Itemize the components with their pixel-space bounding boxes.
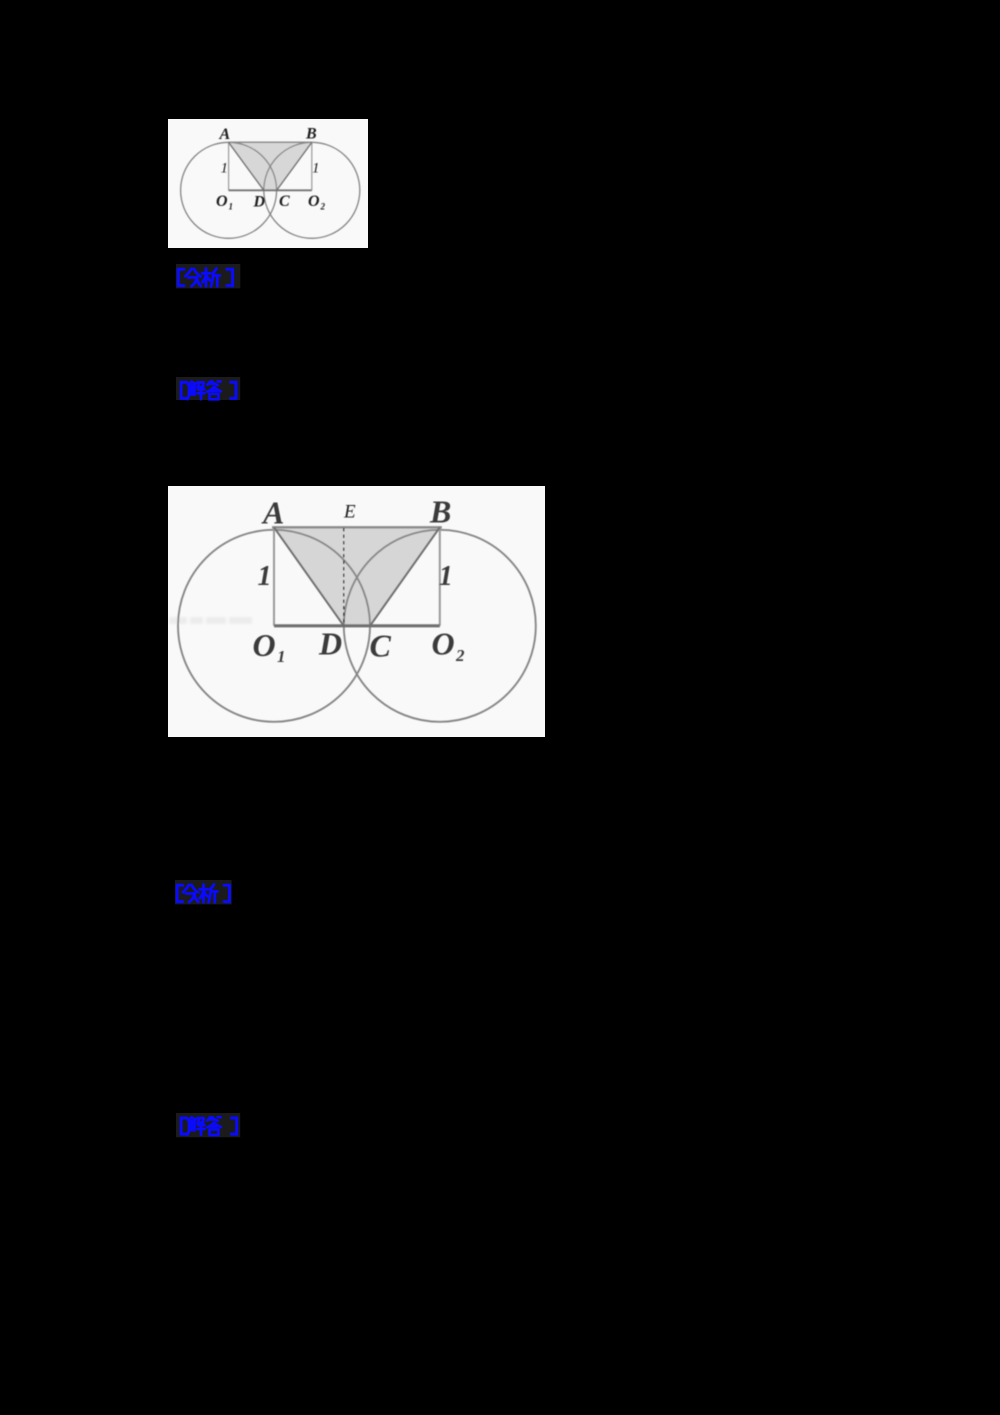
shaded trapezoid ABCD [229, 142, 312, 190]
labels [253, 494, 466, 667]
chord BC [370, 527, 440, 626]
bracket close [231, 1118, 236, 1134]
wire bottom line O1O2 [229, 189, 312, 191]
svg-text:2: 2 [455, 646, 465, 665]
fen [183, 884, 198, 901]
xi [200, 884, 218, 902]
bracket close [224, 885, 229, 901]
jie [188, 382, 196, 400]
circle O1 [178, 530, 370, 722]
rectangle sides [229, 142, 312, 190]
marker 3: blue tag fenxi [175, 880, 235, 905]
marker 1: blue tag fenxi [176, 264, 242, 289]
wire bottom line O1O2 [274, 624, 440, 627]
chord AD [229, 142, 264, 190]
bracket close [226, 269, 232, 285]
marker 4: blue tag jieda [176, 1113, 242, 1138]
svg-text:C: C [279, 193, 290, 210]
chord BC [277, 142, 312, 190]
svg-text:1: 1 [221, 161, 229, 177]
da [207, 1117, 221, 1135]
figure 2: enlarged diagram with point E and dashed ED [168, 486, 545, 737]
svg-text:D: D [318, 626, 342, 662]
svg-text:A: A [219, 126, 231, 143]
svg-text:1: 1 [312, 161, 320, 177]
svg-text:1: 1 [277, 647, 286, 666]
circle O1 [181, 142, 277, 238]
bracket [181, 383, 187, 399]
bracket close [231, 383, 236, 399]
svg-text:O: O [308, 193, 320, 210]
labels [216, 126, 326, 212]
jie [188, 1117, 196, 1135]
svg-text:B: B [429, 494, 451, 530]
circle O2 [264, 142, 360, 238]
bracket [178, 269, 184, 285]
wire top line AB [272, 526, 442, 528]
shaded trapezoid ABCD [274, 527, 440, 626]
svg-text:A: A [261, 495, 284, 531]
dashed line ED [343, 528, 345, 626]
faint watermark [169, 617, 252, 624]
chord AD [274, 527, 344, 626]
svg-text:2: 2 [320, 202, 326, 212]
svg-text:D: D [253, 194, 266, 211]
svg-text:C: C [370, 628, 392, 664]
svg-text:1: 1 [229, 202, 234, 212]
svg-text:E: E [343, 502, 356, 523]
circle O2 [344, 530, 536, 722]
bracket [177, 885, 183, 901]
figure 1: two unit circles with rectangle ABO2O1 [168, 119, 368, 248]
svg-text:O: O [216, 193, 228, 210]
marker 2: blue tag jieda [176, 377, 242, 402]
svg-text:1: 1 [258, 561, 272, 592]
svg-text:O: O [253, 627, 276, 663]
svg-text:O: O [432, 626, 455, 662]
rectangle sides [274, 527, 440, 626]
xi [202, 268, 220, 286]
da [207, 382, 221, 400]
bracket [181, 1118, 187, 1134]
fen [185, 268, 200, 285]
svg-text:B: B [305, 126, 317, 143]
wire top line AB [229, 141, 312, 143]
svg-text:1: 1 [439, 561, 453, 592]
